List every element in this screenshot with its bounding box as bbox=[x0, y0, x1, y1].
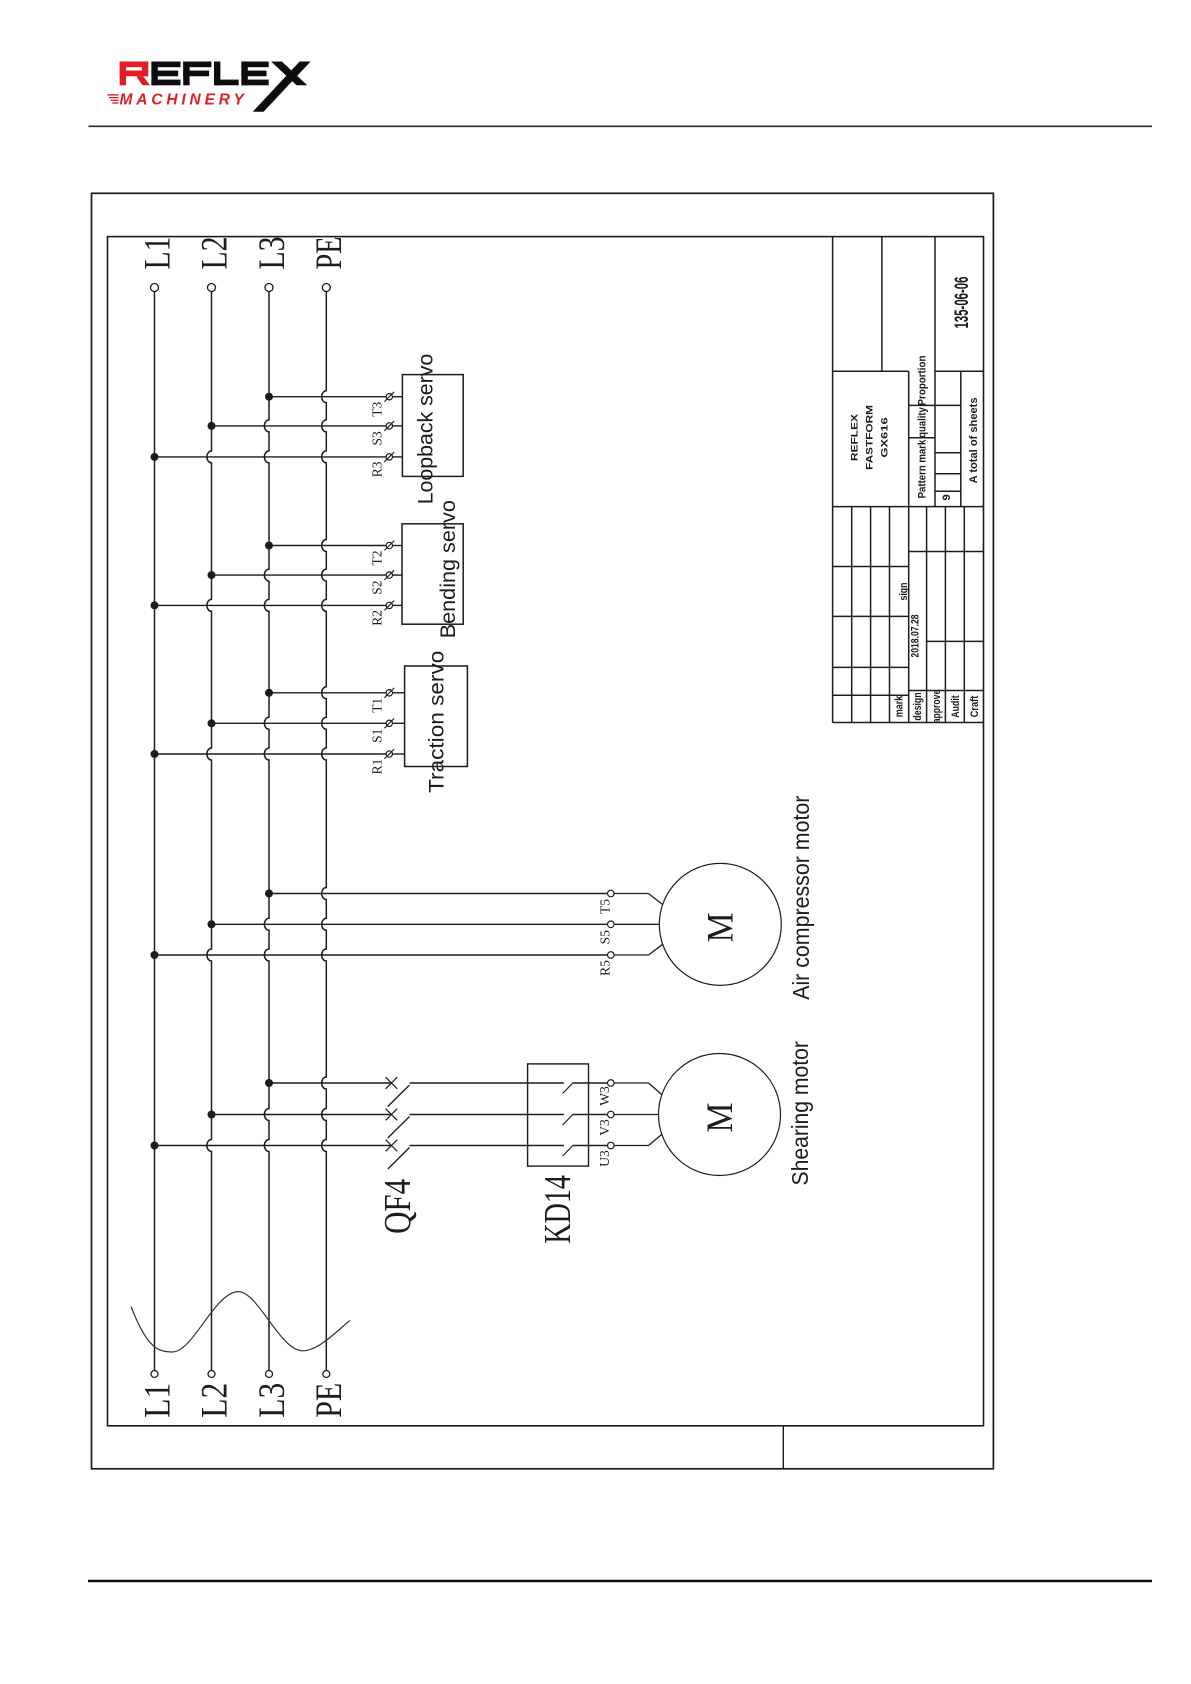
svg-text:W3: W3 bbox=[597, 1086, 612, 1106]
svg-text:M: M bbox=[700, 1103, 741, 1133]
svg-text:Proportion: Proportion bbox=[917, 355, 929, 405]
svg-text:L3: L3 bbox=[252, 1383, 293, 1418]
svg-text:L1: L1 bbox=[137, 237, 178, 270]
svg-text:M: M bbox=[701, 912, 742, 942]
svg-text:2018.07.28: 2018.07.28 bbox=[910, 614, 922, 657]
svg-text:mark: mark bbox=[894, 695, 906, 717]
svg-text:T5: T5 bbox=[597, 899, 612, 914]
svg-text:QF4: QF4 bbox=[377, 1179, 419, 1234]
svg-text:L2: L2 bbox=[194, 1383, 235, 1418]
svg-text:R5: R5 bbox=[597, 960, 612, 976]
svg-text:R3: R3 bbox=[369, 461, 384, 477]
svg-text:S5: S5 bbox=[597, 930, 612, 945]
svg-text:T3: T3 bbox=[369, 401, 384, 416]
svg-text:9: 9 bbox=[941, 494, 953, 500]
svg-text:quality: quality bbox=[917, 406, 929, 437]
svg-text:Traction servo: Traction servo bbox=[425, 651, 449, 793]
svg-text:R1: R1 bbox=[369, 759, 384, 775]
svg-text:T2: T2 bbox=[369, 551, 384, 566]
svg-text:S1: S1 bbox=[369, 729, 384, 743]
svg-text:Shearing motor: Shearing motor bbox=[787, 1041, 813, 1186]
svg-text:A total of sheets: A total of sheets bbox=[968, 397, 980, 483]
svg-text:S2: S2 bbox=[369, 580, 384, 594]
svg-text:design: design bbox=[912, 692, 924, 720]
svg-text:R2: R2 bbox=[369, 610, 384, 626]
svg-text:Loopback servo: Loopback servo bbox=[414, 354, 438, 505]
svg-text:sign: sign bbox=[898, 582, 910, 600]
svg-text:L3: L3 bbox=[252, 237, 293, 270]
svg-text:Air compressor motor: Air compressor motor bbox=[788, 795, 814, 999]
svg-text:L2: L2 bbox=[194, 236, 235, 269]
svg-text:MACHINERY: MACHINERY bbox=[120, 92, 249, 109]
svg-text:KD14: KD14 bbox=[537, 1175, 579, 1244]
svg-text:PE: PE bbox=[309, 237, 350, 270]
svg-text:U3: U3 bbox=[597, 1150, 612, 1167]
svg-text:Audit: Audit bbox=[950, 695, 962, 718]
svg-text:REFLEX: REFLEX bbox=[849, 413, 860, 461]
svg-text:Pattern mark: Pattern mark bbox=[917, 439, 929, 498]
svg-text:135-06-06: 135-06-06 bbox=[952, 277, 973, 329]
svg-text:V3: V3 bbox=[597, 1119, 612, 1136]
svg-text:Craft: Craft bbox=[969, 695, 981, 717]
svg-text:PE: PE bbox=[309, 1383, 350, 1418]
svg-text:T1: T1 bbox=[369, 698, 384, 713]
svg-text:Bending servo: Bending servo bbox=[436, 500, 460, 638]
svg-text:GX616: GX616 bbox=[879, 417, 890, 457]
svg-text:approve: approve bbox=[931, 690, 943, 724]
svg-text:FASTFORM: FASTFORM bbox=[864, 405, 875, 470]
svg-text:S3: S3 bbox=[369, 431, 384, 446]
svg-text:L1: L1 bbox=[137, 1383, 178, 1418]
